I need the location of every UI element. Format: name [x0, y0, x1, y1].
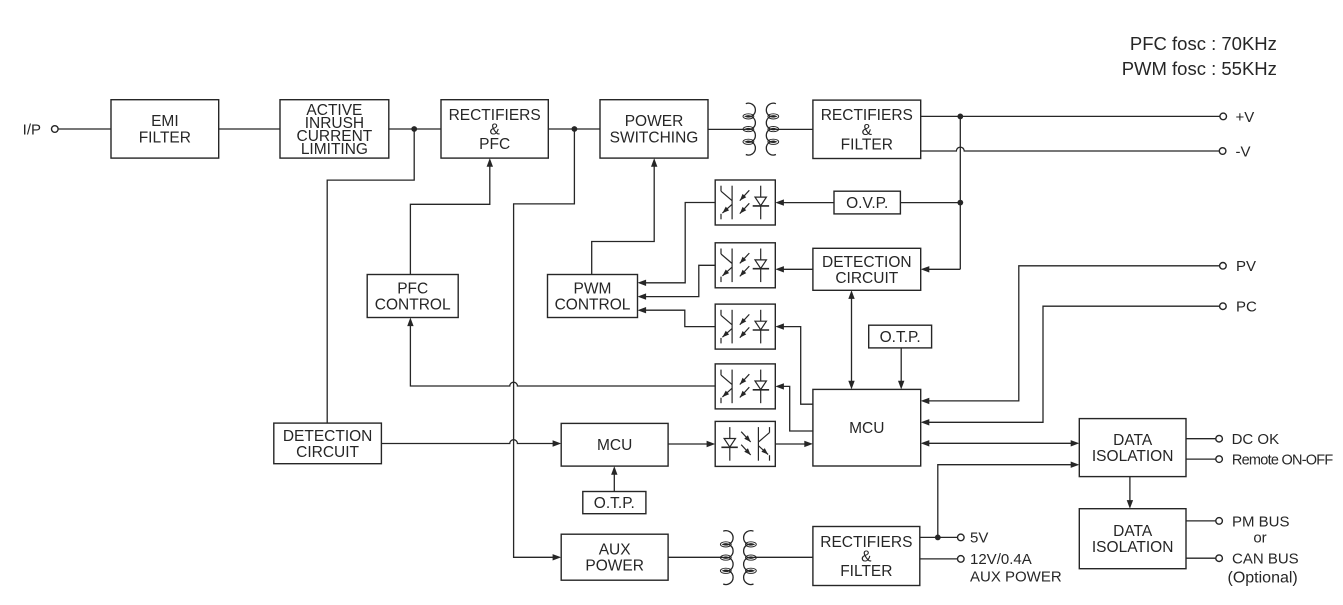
svg-text:POWER: POWER [625, 113, 684, 130]
svg-text:AUX: AUX [599, 542, 632, 559]
svg-text:or: or [1253, 529, 1266, 546]
svg-text:CIRCUIT: CIRCUIT [296, 444, 359, 461]
svg-text:SWITCHING: SWITCHING [610, 130, 699, 147]
svg-text:DATA: DATA [1113, 432, 1153, 449]
svg-text:PWM: PWM [574, 281, 612, 298]
svg-text:PM BUS: PM BUS [1232, 513, 1290, 530]
svg-text:DETECTION: DETECTION [283, 428, 373, 445]
svg-text:-V: -V [1236, 143, 1251, 160]
svg-text:PWM fosc : 55KHz: PWM fosc : 55KHz [1122, 58, 1277, 79]
svg-text:FILTER: FILTER [841, 136, 893, 153]
svg-text:5V: 5V [970, 530, 988, 547]
svg-text:EMI: EMI [151, 113, 179, 130]
svg-text:MCU: MCU [597, 437, 632, 454]
svg-text:PFC fosc : 70KHz: PFC fosc : 70KHz [1130, 33, 1277, 54]
svg-text:CIRCUIT: CIRCUIT [835, 270, 898, 287]
svg-text:PV: PV [1236, 258, 1256, 275]
svg-text:LIMITING: LIMITING [301, 141, 368, 158]
svg-text:FILTER: FILTER [139, 130, 191, 147]
svg-text:O.T.P.: O.T.P. [594, 495, 635, 512]
svg-text:DC OK: DC OK [1232, 431, 1280, 448]
svg-text:PFC: PFC [397, 281, 428, 298]
svg-text:AUX POWER: AUX POWER [970, 569, 1062, 586]
svg-text:O.V.P.: O.V.P. [846, 195, 888, 212]
svg-text:12V/0.4A: 12V/0.4A [970, 551, 1032, 568]
svg-text:+V: +V [1236, 109, 1255, 126]
svg-text:FILTER: FILTER [840, 563, 892, 580]
svg-text:(Optional): (Optional) [1228, 570, 1298, 587]
svg-text:PFC: PFC [479, 136, 510, 153]
svg-text:ISOLATION: ISOLATION [1092, 448, 1174, 465]
svg-text:CAN BUS: CAN BUS [1232, 551, 1299, 568]
svg-text:O.T.P.: O.T.P. [880, 329, 921, 346]
svg-text:DATA: DATA [1113, 523, 1153, 540]
svg-text:DETECTION: DETECTION [822, 254, 912, 271]
svg-text:CONTROL: CONTROL [375, 297, 451, 314]
svg-text:PC: PC [1236, 299, 1257, 316]
svg-text:MCU: MCU [849, 420, 884, 437]
svg-text:Remote ON-OFF: Remote ON-OFF [1232, 453, 1334, 469]
svg-text:CONTROL: CONTROL [555, 297, 631, 314]
svg-text:ISOLATION: ISOLATION [1092, 539, 1174, 556]
svg-text:POWER: POWER [585, 558, 644, 575]
svg-text:I/P: I/P [23, 121, 41, 138]
